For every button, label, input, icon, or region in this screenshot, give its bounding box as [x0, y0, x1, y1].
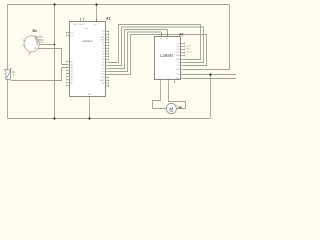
Arduino left pin labels	[71, 33, 74, 85]
svg-text:D7: D7	[102, 56, 104, 58]
node top rail / Vin junction	[95, 3, 97, 5]
svg-text:D12: D12	[71, 33, 74, 35]
svg-text:A4: A4	[71, 72, 73, 75]
svg-text:D4: D4	[102, 48, 104, 50]
node bottom rail junction 2	[88, 117, 90, 119]
L298N right pin labels	[176, 43, 181, 80]
wire L298N to motor right	[169, 82, 186, 108]
svg-text:D2: D2	[102, 42, 104, 44]
Arduino A1 box	[70, 22, 106, 97]
svg-text:O2: O2	[167, 77, 169, 79]
wire L298N top pin 2 up to bus	[167, 30, 169, 37]
svg-text:3V3: 3V3	[101, 77, 104, 79]
L298N pin ticks right	[181, 43, 185, 79]
battery B1 body	[22, 34, 41, 54]
svg-text:D10: D10	[101, 65, 104, 67]
node battery ground junction	[54, 44, 56, 46]
svg-text:GND: GND	[88, 94, 93, 96]
svg-text:OUT3: OUT3	[186, 52, 193, 54]
svg-text:A5: A5	[71, 75, 73, 78]
wire L298N to motor left	[153, 82, 167, 108]
wire junction drop to bottom rail	[210, 75, 212, 119]
svg-text:A2: A2	[179, 32, 183, 36]
wire bus WB	[109, 27, 204, 66]
svg-text:D13: D13	[101, 74, 104, 76]
svg-text:IN1: IN1	[177, 43, 180, 45]
svg-text:GND: GND	[176, 78, 181, 80]
wire bus WC	[109, 30, 168, 69]
svg-text:A0: A0	[102, 82, 104, 85]
wire battery B1 to Arduino left pin	[35, 49, 66, 65]
wire ground rail vertical	[54, 5, 56, 119]
svg-text:A3: A3	[71, 69, 73, 72]
wire Arduino GND to bottom rail	[89, 100, 91, 119]
svg-text:D5: D5	[102, 51, 104, 53]
svg-text:D6: D6	[102, 54, 104, 56]
motor M1	[166, 103, 178, 113]
wire right rail into L298N pin	[185, 5, 230, 70]
Arduino pin ticks right	[106, 31, 109, 87]
svg-text:GND: GND	[74, 24, 79, 26]
svg-text:A6: A6	[71, 78, 73, 81]
wire bus WD	[109, 32, 162, 72]
junction dots	[53, 3, 211, 119]
svg-text:O1: O1	[159, 77, 161, 79]
node L298N output junction	[209, 73, 211, 75]
svg-text:D11: D11	[71, 35, 74, 37]
svg-text:Vin: Vin	[94, 24, 97, 26]
wire bottom rail	[8, 118, 211, 120]
svg-text:OUT2: OUT2	[186, 49, 193, 51]
svg-text:IN2: IN2	[177, 46, 180, 48]
svg-text:B1: B1	[33, 29, 37, 33]
B1 pin fan	[22, 36, 44, 56]
wire L298N output long A	[185, 74, 237, 76]
svg-text:Arduino: Arduino	[83, 39, 93, 43]
svg-text:A7: A7	[71, 81, 73, 84]
svg-text:GND: GND	[176, 69, 181, 71]
svg-text:D11: D11	[101, 68, 104, 70]
wire L298N top pin 1 up to bus	[161, 32, 163, 37]
svg-text:L298N: L298N	[160, 53, 173, 58]
svg-text:GND: GND	[101, 40, 106, 42]
L298N driver A2 box	[155, 37, 181, 80]
Arduino pin ticks top	[80, 18, 97, 21]
wire top rail	[8, 5, 230, 119]
L298N outside pin labels	[186, 46, 193, 54]
wire L298N output long B	[185, 78, 237, 80]
wire bus WE	[109, 35, 207, 75]
wire battery B1 to ground rail	[37, 44, 54, 46]
svg-text:M: M	[169, 106, 173, 112]
svg-text:D1: D1	[102, 31, 104, 33]
Arduino top pin labels	[74, 24, 97, 30]
wire pot wiper to Arduino left pin	[11, 68, 67, 81]
wire Arduino Vin drop	[96, 5, 98, 22]
wire bus WA	[109, 25, 201, 63]
svg-text:A0: A0	[71, 60, 73, 63]
node bottom rail junction 1	[53, 117, 55, 119]
svg-text:IN4: IN4	[177, 52, 180, 54]
node top rail / ground rail junction	[53, 3, 55, 5]
svg-text:IN3: IN3	[177, 49, 180, 51]
Arduino right pin labels	[100, 31, 106, 85]
svg-text:D8: D8	[102, 59, 104, 61]
svg-text:D9: D9	[102, 62, 104, 64]
svg-text:OUT1: OUT1	[186, 46, 193, 48]
sheet background	[0, 0, 240, 124]
L298N top pin labels	[160, 39, 169, 41]
Arduino pin ticks left	[67, 32, 70, 86]
svg-text:D3: D3	[102, 45, 104, 47]
svg-text:A1: A1	[71, 63, 73, 66]
svg-text:D0: D0	[102, 34, 104, 36]
L298N pin ticks top	[162, 33, 168, 36]
L298N pin ticks bottom	[161, 80, 176, 83]
svg-text:D12: D12	[101, 71, 104, 73]
potentiometer R1	[4, 68, 11, 79]
L298N bottom pin labels	[159, 77, 170, 79]
Arduino pin tick bottom	[89, 97, 91, 100]
svg-text:A1: A1	[106, 16, 110, 20]
svg-text:A2: A2	[71, 66, 73, 69]
